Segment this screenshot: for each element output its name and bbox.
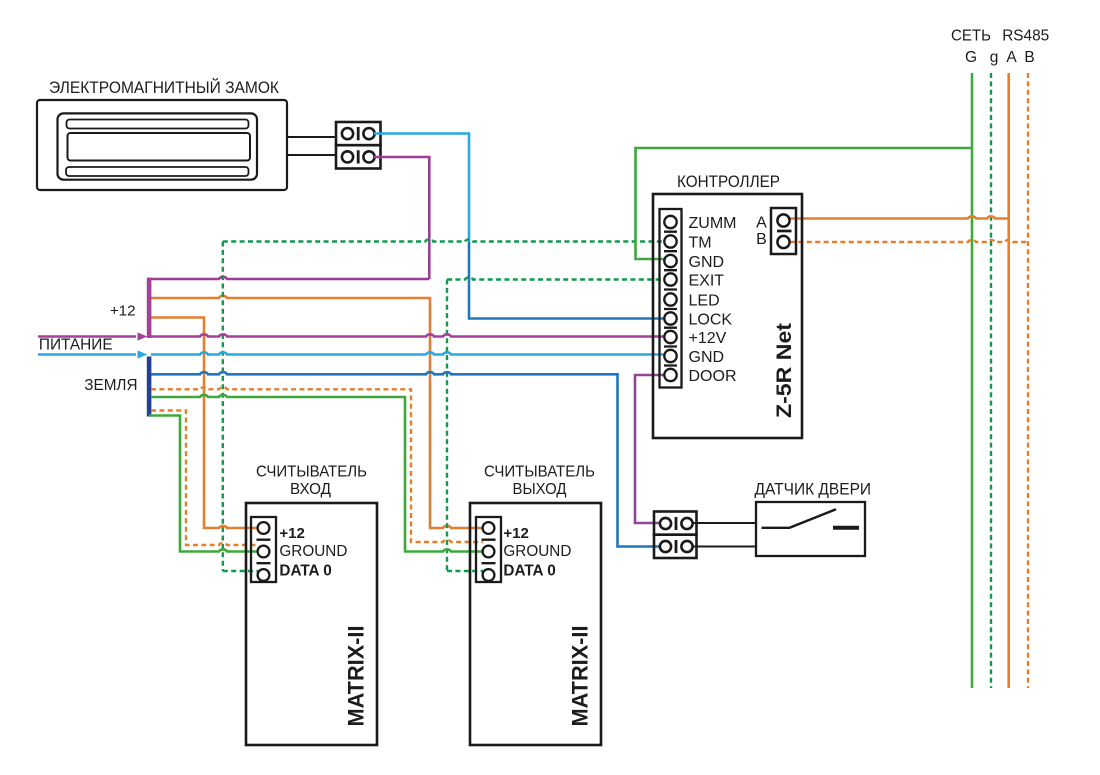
- svg-text:СЧИТЫВАТЕЛЬ: СЧИТЫВАТЕЛЬ: [256, 464, 367, 481]
- svg-text:КОНТРОЛЛЕР: КОНТРОЛЛЕР: [677, 173, 780, 191]
- svg-text:g: g: [990, 49, 999, 66]
- svg-text:СЧИТЫВАТЕЛЬ: СЧИТЫВАТЕЛЬ: [484, 464, 595, 481]
- controller U1 box: [653, 194, 802, 438]
- svg-text:TM: TM: [689, 235, 712, 252]
- reader 1 3-pin terminal strip: [251, 517, 276, 582]
- wire +12 feed to reader 1 (orange): [151, 318, 258, 529]
- controller U1 A/B terminal block: [771, 208, 796, 254]
- terminal block X1 (lock connector, 2x2): [336, 122, 381, 169]
- svg-text:ЗЕМЛЯ: ЗЕМЛЯ: [84, 377, 137, 394]
- wire lock leads (black pair): [287, 137, 336, 155]
- svg-text:+12: +12: [503, 525, 528, 542]
- wire +12 feed to reader 2 (orange): [151, 296, 483, 528]
- wire DOOR pin to door sensor (purple): [635, 375, 665, 523]
- svg-text:GND: GND: [689, 254, 725, 271]
- svg-text:Z-5R Net: Z-5R Net: [772, 323, 796, 418]
- wire RS485 bus G (green solid vertical): [971, 73, 974, 688]
- wire ПИТАНИЕ +12 to controller +12V pin (magenta): [38, 334, 665, 336]
- wire lock - lead upper segment (cyan): [374, 134, 469, 244]
- wire ground to reader2 GROUND (orange dashed): [151, 387, 483, 542]
- wire reader1 DATA0 to TM pin (green dashed): [223, 239, 665, 571]
- svg-text:GROUND: GROUND: [279, 543, 347, 560]
- wire controller A to RS485 A line (orange): [790, 216, 1009, 218]
- wire ground to door sensor (blue): [151, 372, 660, 546]
- svg-text:G: G: [965, 49, 977, 66]
- wire controller GND pin to RS485 G line (green): [636, 148, 973, 259]
- node arrow ПИТАНИЕ + (magenta): [138, 332, 148, 340]
- node arrow ПИТАНИЕ - (cyan): [138, 350, 148, 358]
- svg-text:DATA 0: DATA 0: [503, 563, 555, 580]
- svg-text:GND: GND: [689, 349, 725, 366]
- electromagnetic lock YM1 body: [37, 100, 287, 190]
- svg-text:DATA 0: DATA 0: [279, 563, 331, 580]
- svg-text:ДАТЧИК ДВЕРИ: ДАТЧИК ДВЕРИ: [755, 481, 872, 499]
- svg-text:MATRIX-II: MATRIX-II: [568, 626, 593, 727]
- svg-text:ЭЛЕКТРОМАГНИТНЫЙ ЗАМОК: ЭЛЕКТРОМАГНИТНЫЙ ЗАМОК: [49, 78, 279, 97]
- reader 2 box (exit reader): [470, 503, 601, 745]
- door sensor S1 switch contact (movable arm): [762, 509, 837, 528]
- svg-text:LOCK: LOCK: [689, 312, 733, 329]
- svg-text:ВХОД: ВХОД: [290, 481, 331, 498]
- svg-text:+12V: +12V: [689, 330, 727, 347]
- svg-text:СЕТЬ: СЕТЬ: [951, 28, 991, 45]
- wire ground to reader1 GROUND (green): [149, 416, 258, 552]
- svg-text:+12: +12: [279, 525, 304, 542]
- svg-text:RS485: RS485: [1002, 28, 1049, 45]
- door sensor S1 fixed contact: [833, 526, 859, 530]
- svg-text:A: A: [1006, 49, 1017, 66]
- svg-text:B: B: [1024, 49, 1034, 66]
- wire lock + lead to +12 bus (purple): [151, 157, 429, 279]
- svg-text:EXIT: EXIT: [689, 273, 725, 290]
- svg-text:B: B: [756, 231, 767, 248]
- wire reader2 DATA0 to EXIT pin (green dashed): [447, 277, 665, 571]
- svg-text:A: A: [756, 214, 767, 231]
- wire lock - lead to LOCK pin (blue): [469, 242, 665, 319]
- svg-text:LED: LED: [689, 293, 720, 310]
- controller U1 9-pin terminal strip: [660, 209, 682, 388]
- svg-text:GROUND: GROUND: [503, 543, 571, 560]
- wire ПИТАНИЕ minus to controller GND pin (cyan): [38, 352, 665, 354]
- svg-text:ПИТАНИЕ: ПИТАНИЕ: [39, 337, 113, 354]
- svg-text:ВЫХОД: ВЫХОД: [513, 481, 567, 498]
- wire door terminal to sensor (black pair): [692, 523, 756, 547]
- wire RS485 bus B (orange dashed vertical): [1027, 73, 1029, 688]
- reader 1 box (entry reader): [246, 503, 377, 745]
- wire ground to reader1 GROUND (orange dashed): [151, 411, 258, 546]
- svg-text:MATRIX-II: MATRIX-II: [344, 626, 369, 727]
- reader 2 3-pin terminal strip: [476, 517, 501, 582]
- wire ground to reader2 GROUND (green): [151, 395, 483, 552]
- terminal block X2 (door sensor connector, 2x2): [654, 512, 697, 559]
- svg-text:DOOR: DOOR: [689, 368, 737, 385]
- ground ЗЕМЛЯ bus bar (navy): [147, 357, 152, 417]
- svg-text:+12: +12: [110, 302, 136, 319]
- wire controller B to RS485 B line (orange dashed): [790, 240, 1028, 242]
- door sensor S1 box: [756, 502, 865, 556]
- wire RS485 bus g (green dashed vertical): [990, 73, 992, 688]
- node +12 bus bar (magenta): [147, 278, 152, 339]
- wire RS485 bus A (orange solid vertical): [1007, 73, 1010, 688]
- svg-text:ZUMM: ZUMM: [689, 215, 737, 232]
